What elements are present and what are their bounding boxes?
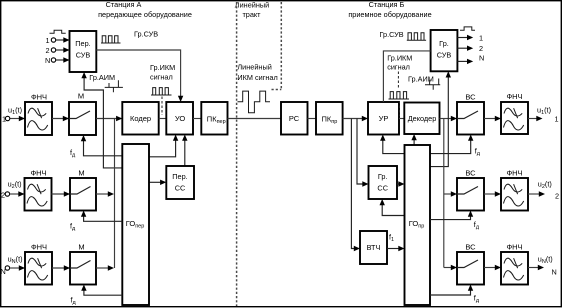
dashed boundary right of line tract (280, 2, 282, 90)
svg-text:2: 2 (479, 44, 483, 53)
svg-text:uN(t): uN(t) (538, 255, 553, 266)
output channel 1 (528, 118, 537, 120)
regenerator RS (281, 102, 308, 135)
group SUV pulses glyph (receive) (407, 33, 426, 41)
low-pass filter FNCh1 (25, 93, 52, 136)
wire GOper to per.SUV (timing riser) (84, 78, 122, 168)
modulator M1 (69, 92, 96, 135)
SUV input N (45, 56, 70, 65)
svg-text:ВС: ВС (465, 243, 476, 252)
wire VS2 to FNCh right2 (484, 193, 496, 195)
svg-text:УО: УО (175, 114, 186, 123)
svg-text:Пер.: Пер. (75, 39, 90, 48)
svg-text:Гр.СУВ: Гр.СУВ (134, 30, 158, 39)
AIM pulses glyph (receive) (425, 79, 440, 90)
svg-text:М: М (78, 243, 84, 252)
dashed link label to pulses (397, 72, 399, 89)
UR unit (368, 102, 399, 135)
wire per.SS to UO bottom (184, 140, 186, 166)
gr.SS block (369, 166, 398, 199)
SUV input 1 (46, 36, 70, 45)
svg-text:u2(t): u2(t) (538, 180, 552, 191)
svg-text:ФНЧ: ФНЧ (506, 169, 522, 178)
svg-text:Гр.: Гр. (439, 39, 449, 48)
wire decoder signal bus vertical (443, 119, 445, 268)
PKpr (316, 102, 343, 135)
svg-text:2: 2 (555, 192, 559, 201)
output channel 2 (528, 193, 540, 195)
svg-text:ФНЧ: ФНЧ (506, 243, 522, 252)
wire fd2 right (430, 216, 471, 220)
svg-text:приемное оборудование: приемное оборудование (348, 10, 431, 19)
wire per.SUV output to UO top (96, 50, 180, 97)
low-pass filter FNChN (25, 243, 52, 285)
wire UR to gr.SUV (383, 51, 430, 102)
GOpr block (405, 145, 431, 305)
svg-text:СУВ: СУВ (76, 51, 91, 60)
decoder (404, 103, 439, 135)
node: input 1 circle (5, 116, 9, 120)
group IKM pulses glyph (151, 88, 172, 95)
svg-text:ФНЧ: ФНЧ (31, 93, 47, 102)
GOper block (122, 144, 149, 305)
per.SS block (166, 166, 194, 199)
svg-text:ВТЧ: ВТЧ (367, 243, 381, 252)
svg-text:Кодер: Кодер (130, 114, 151, 123)
AIM pulses glyph (105, 80, 123, 92)
low-pass filter FNCh right2 (501, 169, 528, 211)
dashed horizontal end of right boundary (272, 89, 282, 91)
svg-text:передающее оборудование: передающее оборудование (98, 10, 192, 19)
svg-text:ВС: ВС (465, 169, 476, 178)
svg-text:ИКМ сигнал: ИКМ сигнал (237, 73, 277, 82)
gr.SUV output 1 (457, 37, 467, 39)
svg-text:1: 1 (2, 115, 6, 124)
svg-text:N: N (552, 268, 557, 277)
svg-text:Пер.: Пер. (172, 172, 187, 181)
wire coder to UO (159, 118, 167, 120)
gr.SUV block (431, 30, 458, 71)
wire FNCh1 to M1 (52, 118, 69, 120)
svg-text:Гр.: Гр. (378, 172, 388, 181)
group SUV pulses glyph (101, 36, 121, 43)
low-pass filter FNCh2 (25, 169, 52, 211)
wire GOper to per.SS (149, 181, 161, 183)
wire: main PCM line row1 (10, 118, 25, 120)
svg-text:1: 1 (479, 34, 483, 43)
low-pass filter FNCh right1 (501, 92, 528, 134)
svg-text:u1(t): u1(t) (8, 106, 22, 117)
wire PKper to RS (through tract boundary) (228, 118, 282, 120)
wire fdN from GOper to MN (84, 290, 122, 295)
wire M2 to AIM bus (96, 193, 109, 195)
group IKM pulses glyph (receive) (389, 92, 410, 99)
dashed link PCM pulses to line (161, 97, 163, 116)
wire bus to VS2 (444, 193, 452, 195)
svg-text:ВС: ВС (465, 93, 476, 102)
svg-text:Станция А: Станция А (106, 0, 142, 9)
svg-text:ФНЧ: ФНЧ (31, 243, 47, 252)
wire GOpr to gr.SS bottom (382, 205, 404, 216)
svg-text:Гр.ИКМ: Гр.ИКМ (150, 63, 175, 72)
svg-text:РС: РС (289, 114, 300, 123)
VS1 channel selector (457, 93, 484, 135)
coder (122, 102, 158, 135)
svg-text:Станция Б: Станция Б (369, 0, 405, 9)
svg-text:СС: СС (175, 184, 186, 193)
SUV input 2 (46, 46, 70, 55)
wire fd2 from GOper to M2 (84, 216, 123, 221)
wire GOpr to gr.SUV bottom (riser) (430, 77, 448, 167)
svg-text:Гр.ИКМ: Гр.ИКМ (387, 54, 412, 63)
wire fd1 from GOper to M1 (84, 141, 123, 156)
svg-text:ФНЧ: ФНЧ (30, 169, 46, 178)
single pulse glyph above gr.SUV outputs (460, 27, 475, 30)
gr.SUV output 2 (457, 47, 467, 49)
wire GOpr to decoder bottom (413, 140, 415, 145)
wire GOper to UO bottom (149, 140, 176, 157)
wire FNCh2 to M2 (52, 193, 71, 195)
wire UR to decoder (399, 118, 404, 120)
wire decoder to VS1 (440, 118, 452, 120)
wire main line tee to VTCh (351, 119, 354, 249)
PKper (201, 102, 227, 135)
UO unit (166, 102, 193, 135)
per SUV block (70, 31, 97, 72)
wire FNChN to MN (52, 267, 70, 269)
svg-text:Линейный: Линейный (235, 0, 269, 9)
svg-text:1: 1 (46, 36, 50, 45)
svg-text:сигнал: сигнал (150, 73, 173, 82)
modulator M2 (70, 169, 96, 211)
single pulse glyph above input 1 (50, 30, 66, 33)
VTCh block (360, 231, 387, 264)
wire gr.SS to GOpr (397, 183, 399, 185)
dashed boundary left of line tract (236, 2, 238, 306)
svg-text:Гр.СУВ: Гр.СУВ (380, 30, 404, 39)
wire VS1 to FNCh right1 (484, 118, 496, 120)
svg-text:N: N (45, 56, 50, 65)
svg-text:ФНЧ: ФНЧ (506, 92, 522, 101)
svg-text:N: N (479, 54, 484, 63)
svg-text:УР: УР (379, 114, 389, 123)
wire M1 to Coder (96, 118, 122, 120)
svg-text:СУВ: СУВ (437, 51, 452, 60)
svg-text:М: М (78, 92, 84, 101)
svg-text:тракт: тракт (242, 10, 261, 19)
wire VTCh to GOpr (387, 248, 399, 250)
bipolar line code waveform (238, 91, 270, 113)
svg-text:Гр.АИМ: Гр.АИМ (89, 73, 115, 82)
svg-text:uN(t): uN(t) (8, 255, 23, 266)
wire main line tee to gr.SS (357, 119, 363, 185)
VSN channel selector (457, 243, 484, 285)
svg-text:сигнал: сигнал (387, 63, 410, 72)
svg-text:2: 2 (1, 191, 5, 200)
dashed link IKM pulses to line (receive) (399, 101, 401, 116)
modulator MN (70, 243, 96, 285)
wire fd1 right: GOpr to VS1 bottom (430, 140, 471, 153)
wire fd1 right: GOpr to UR bottom (383, 140, 405, 153)
gr.SUV output N (457, 60, 467, 62)
svg-text:М: М (78, 169, 84, 178)
svg-text:Декодер: Декодер (408, 114, 437, 123)
svg-text:СС: СС (377, 184, 388, 193)
svg-text:Линейный: Линейный (237, 63, 271, 72)
wire PKpr to UR (343, 118, 363, 120)
svg-text:u1(t): u1(t) (537, 106, 551, 117)
wire AIM bus vertical (114, 119, 116, 269)
wire UO to PKper (193, 118, 201, 120)
wire RS to PKpr (308, 118, 317, 120)
svg-text:u2(t): u2(t) (8, 180, 22, 191)
svg-text:1: 1 (555, 115, 559, 124)
wire MN to AIM bus (96, 267, 109, 269)
output channel N (528, 267, 539, 269)
svg-text:2: 2 (46, 46, 50, 55)
wire VSN to FNCh rightN (484, 267, 496, 269)
wire bus to VSN (444, 267, 452, 269)
low-pass filter FNCh rightN (501, 243, 528, 285)
VS2 channel selector (457, 169, 484, 211)
wire fdN right (430, 290, 471, 295)
